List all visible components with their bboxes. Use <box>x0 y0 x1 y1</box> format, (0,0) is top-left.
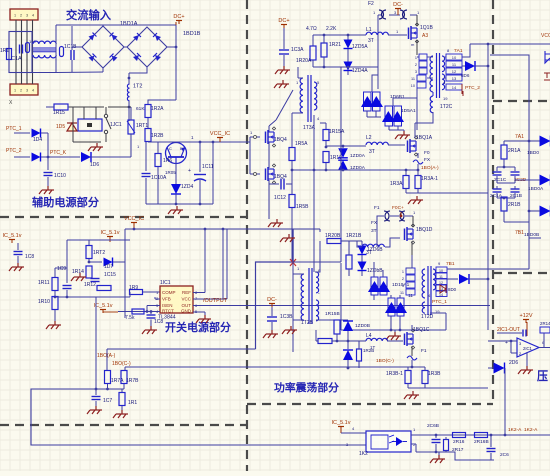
wire long left vertical <box>95 297 97 389</box>
wire DC- bus <box>292 229 294 262</box>
relay 1JC1 coil <box>78 119 102 131</box>
svg-text:1BQ4: 1BQ4 <box>274 137 287 143</box>
svg-text:C1A: C1A <box>11 56 22 62</box>
wire between bridges <box>72 46 82 48</box>
section divider horizontal y=217 <box>0 216 247 218</box>
svg-text:1K2-A: 1K2-A <box>524 427 538 433</box>
svg-text:3: 3 <box>402 284 404 288</box>
svg-text:1C11: 1C11 <box>202 164 214 170</box>
diode 1D6 <box>48 156 80 158</box>
net 1BO(C-) wire <box>125 366 425 368</box>
svg-text:1T2C: 1T2C <box>440 104 453 110</box>
big diode pair 1D10A <box>371 277 378 295</box>
optocoupler 1K2 <box>366 431 411 452</box>
ground 1C8 ic <box>150 326 152 330</box>
ground bottom <box>438 455 440 459</box>
svg-text:IC_5.1v: IC_5.1v <box>101 230 120 236</box>
ground big diodes <box>394 332 396 336</box>
ground 1C7 <box>95 406 97 410</box>
resistor 1R15A <box>323 130 329 141</box>
connector J1 bottom <box>10 84 38 95</box>
wire 1T3A pin4 down <box>313 115 315 272</box>
svg-text:2C1C: 2C1C <box>494 177 507 183</box>
svg-text:1BQ1D: 1BQ1D <box>416 227 433 233</box>
diode 1BD0A right edge <box>540 175 550 186</box>
wire L4 row left <box>337 340 366 342</box>
wire opto right rail <box>411 434 550 436</box>
svg-text:3T: 3T <box>371 228 377 234</box>
resistor 1R2B lower <box>357 349 362 361</box>
resistor 1R3A-1 <box>415 176 421 189</box>
svg-text:RTCT: RTCT <box>162 309 174 314</box>
MOSFET 1Q1C <box>404 334 406 346</box>
svg-text:1R3B-1: 1R3B-1 <box>386 371 403 377</box>
svg-text:1BO(A-): 1BO(A-) <box>97 353 116 359</box>
svg-text:E: E <box>180 146 183 151</box>
svg-text:11: 11 <box>400 291 404 295</box>
capacitor 1C8 ic <box>150 312 152 315</box>
thermistor 1RT1 <box>128 120 134 134</box>
svg-text:F1: F1 <box>374 205 380 211</box>
svg-text:1ZD5A: 1ZD5A <box>352 44 368 50</box>
net wire 1BO(A-) upper <box>292 169 418 171</box>
svg-text:2: 2 <box>20 89 22 93</box>
svg-text:VFB: VFB <box>162 297 171 302</box>
svg-text:10: 10 <box>411 84 415 88</box>
diode 1BD0 right edge <box>540 136 550 147</box>
diode 2D6 <box>494 363 505 374</box>
diode 1ZD0B lower <box>347 341 349 349</box>
wire aux vcc row <box>148 141 250 143</box>
svg-text:7B1: 7B1 <box>446 261 455 267</box>
ground 1R10 <box>54 321 56 325</box>
svg-text:1BD1B: 1BD1B <box>183 31 201 37</box>
svg-text:1R12: 1R12 <box>84 282 96 288</box>
wire 1R3A bottoms <box>406 192 488 194</box>
svg-text:10: 10 <box>439 269 443 273</box>
relay flyback diode 1D5 (yellow) <box>67 123 77 131</box>
svg-text:1BQ1A: 1BQ1A <box>416 135 433 141</box>
section divider horizontal y=101 <box>493 100 550 102</box>
svg-text:/OUTPUT: /OUTPUT <box>203 298 228 304</box>
resistor 1R7A <box>105 371 111 384</box>
svg-text:1C7: 1C7 <box>103 398 112 404</box>
svg-text:DC-: DC- <box>267 297 277 303</box>
svg-text:1R10: 1R10 <box>38 299 50 305</box>
svg-text:DC-: DC- <box>393 2 403 8</box>
svg-text:PTC_2: PTC_2 <box>465 85 480 91</box>
svg-text:1R3A-1: 1R3A-1 <box>421 176 438 182</box>
node X mark <box>290 259 296 266</box>
svg-text:3T: 3T <box>369 149 375 155</box>
capacitor 1C3B <box>267 316 277 318</box>
net OUTPUT wire <box>193 305 490 307</box>
svg-text:2R1B: 2R1B <box>508 202 521 208</box>
ground chassis lower <box>288 234 290 238</box>
svg-text:1R15: 1R15 <box>53 110 65 116</box>
svg-text:1T: 1T <box>370 345 376 350</box>
svg-text:PTC_1: PTC_1 <box>432 299 447 305</box>
resistor 1R23A <box>408 366 425 368</box>
ground aux <box>176 206 178 210</box>
svg-text:1R1: 1R1 <box>0 48 9 54</box>
svg-text:1R21: 1R21 <box>329 42 341 48</box>
wire lower bus <box>341 329 446 331</box>
wire IC pins left <box>155 298 160 300</box>
diode 1BD0B right edge <box>540 206 550 217</box>
svg-text:1R05: 1R05 <box>165 170 176 175</box>
svg-text:1BO(A-): 1BO(A-) <box>421 165 439 171</box>
wire DC+ rail right <box>56 24 176 26</box>
svg-text:4.7Ω: 4.7Ω <box>306 26 317 32</box>
resistor 1R20B <box>327 239 341 244</box>
svg-text:PTC_2: PTC_2 <box>6 148 22 154</box>
zener 1ZD6B <box>348 241 350 244</box>
svg-text:3T: 3T <box>368 38 374 44</box>
svg-text:A3: A3 <box>422 33 428 39</box>
transformer 1T2C <box>430 56 433 92</box>
IC 1IC1 TL3844 <box>160 286 193 313</box>
svg-text:1R9: 1R9 <box>129 285 138 291</box>
capacitor 1C1B <box>55 25 57 73</box>
wire aux bottom <box>146 203 213 205</box>
svg-text:19: 19 <box>443 96 448 101</box>
svg-text:FX: FX <box>371 220 378 226</box>
svg-text:OUT: OUT <box>182 303 192 308</box>
diagonal wire <box>276 90 293 120</box>
op-amp cut at right edge <box>545 51 550 63</box>
svg-text:1R15B: 1R15B <box>325 311 340 317</box>
svg-text:COMP: COMP <box>162 290 176 295</box>
svg-text:1D5: 1D5 <box>56 124 65 130</box>
resistor 1R19B <box>318 339 332 344</box>
svg-text:1RT2: 1RT2 <box>93 250 105 256</box>
resistor 2R16B <box>475 433 488 438</box>
svg-text:1D10A1: 1D10A1 <box>392 282 410 288</box>
resistor 2R16 <box>453 433 466 438</box>
wire 1R23 bottoms <box>408 387 425 389</box>
bridge rectifier 1BD1A <box>82 26 124 68</box>
zener 1ZD4A <box>344 62 353 71</box>
zener 1ZD4 <box>175 163 177 184</box>
ground 1R3A <box>416 196 418 200</box>
svg-text:1ZD4: 1ZD4 <box>181 184 193 190</box>
resistor 1R15B <box>316 319 348 321</box>
resistor 1R14 <box>86 266 92 278</box>
capacitor 1C8 <box>17 243 19 250</box>
diode 1D7 <box>89 261 102 263</box>
bridge rectifier 1BD1B <box>127 27 167 67</box>
section divider horizontal y=273 <box>493 272 550 274</box>
svg-text:VCC: VCC <box>541 33 550 39</box>
wire 1T2D top tap <box>447 268 529 270</box>
svg-text:61K: 61K <box>136 106 145 112</box>
capacitor 2C1A 2C1B <box>496 176 498 183</box>
MOSFET 1BQ4 lower <box>265 169 267 181</box>
net 1BO(A-) wire <box>107 348 256 350</box>
transformer 1T3B <box>301 274 304 320</box>
common-mode choke L0 <box>33 41 56 44</box>
ground relay <box>96 143 98 147</box>
wire 2R1B to bus <box>504 221 529 223</box>
svg-text:4: 4 <box>32 14 34 18</box>
svg-text:1T2D: 1T2D <box>421 314 434 320</box>
svg-text:1R20A: 1R20A <box>296 58 312 64</box>
big diode pair 1D5A1 <box>385 106 393 126</box>
resistor 1R15 <box>54 104 68 110</box>
wire 1Q1D source to 1T2D <box>411 255 413 268</box>
svg-text:1RT1: 1RT1 <box>136 123 148 129</box>
svg-text:IC_5.1v: IC_5.1v <box>332 420 351 426</box>
svg-text:11: 11 <box>439 275 443 279</box>
svg-text:PTC_1: PTC_1 <box>6 126 22 132</box>
capacitor 2C14 <box>522 330 524 337</box>
resistor 2R1A <box>501 145 507 159</box>
resistor 1R7B <box>121 371 127 384</box>
svg-text:IC_5.1v: IC_5.1v <box>3 233 22 239</box>
ground 1R1 lower <box>121 410 123 414</box>
svg-text:1BD0A: 1BD0A <box>528 186 544 192</box>
diode 1ZD0B upper <box>343 321 353 331</box>
svg-text:F2: F2 <box>368 1 374 7</box>
svg-text:1R5A: 1R5A <box>295 141 308 147</box>
ground 1R23 <box>412 391 414 395</box>
wire 1T3B primary <box>293 273 304 275</box>
MOSFET 1Q1A <box>407 141 409 153</box>
svg-text:1R11: 1R11 <box>38 280 50 286</box>
capacitor C1A <box>19 45 21 54</box>
svg-text:2.2K: 2.2K <box>326 26 337 32</box>
svg-text:DC+: DC+ <box>173 14 184 20</box>
ground opamp <box>526 352 528 366</box>
wire gate row <box>313 34 366 36</box>
svg-text:3: 3 <box>415 70 417 74</box>
diode mark 8D0 red <box>440 285 446 293</box>
wire big diodes <box>373 262 375 277</box>
ground 1C3A <box>283 66 285 70</box>
svg-text:1R1: 1R1 <box>128 400 137 406</box>
transformer 1T2C lower winding <box>430 96 433 113</box>
wire bottom-left loop <box>31 389 366 445</box>
svg-text:2C6B: 2C6B <box>427 423 439 429</box>
svg-text:F1: F1 <box>421 348 427 354</box>
svg-text:1C3B: 1C3B <box>280 314 293 320</box>
resistor 2R14 <box>540 327 550 333</box>
zener 1ZD5A <box>347 35 349 40</box>
capacitor 1C15 <box>91 278 100 280</box>
svg-text:4: 4 <box>32 89 34 93</box>
resistor 1R22 <box>346 255 352 269</box>
svg-text:14: 14 <box>452 85 457 90</box>
svg-text:1C10A: 1C10A <box>151 175 167 181</box>
wire IC pins right <box>193 292 205 294</box>
wire big diodes upper <box>366 111 368 117</box>
big diode pair 1D10B <box>388 298 395 316</box>
svg-text:2C6: 2C6 <box>500 452 509 458</box>
resistor 1R1 <box>9 32 32 73</box>
svg-text:1K2: 1K2 <box>359 451 368 457</box>
section divider vertical x=493 <box>492 0 494 405</box>
svg-text:1D7: 1D7 <box>104 264 113 270</box>
svg-text:F0C+: F0C+ <box>392 205 404 211</box>
svg-text:1: 1 <box>14 14 16 18</box>
transistor 1Q1 regulator <box>166 143 187 164</box>
svg-text:2IC1: 2IC1 <box>523 346 533 351</box>
svg-text:1R15A: 1R15A <box>329 129 345 135</box>
wire vcc right rail <box>319 229 321 232</box>
wire MOSFET chain <box>268 142 270 168</box>
svg-text:1ZDbB: 1ZDbB <box>367 268 383 274</box>
wire connector pins <box>15 20 17 84</box>
svg-text:2: 2 <box>20 14 22 18</box>
svg-text:8D6: 8D6 <box>461 73 470 78</box>
relay contact <box>104 114 107 117</box>
svg-text:3T: 3T <box>366 250 372 256</box>
capacitor 1C10A <box>145 142 147 171</box>
MOSFET 1Q1D <box>404 229 406 241</box>
svg-text:2: 2 <box>402 277 404 281</box>
svg-text:辅助电源部分: 辅助电源部分 <box>32 195 99 209</box>
svg-text:1D6B1: 1D6B1 <box>390 94 405 100</box>
zener 1ZD4B <box>358 262 367 271</box>
wire F2 left down <box>378 14 381 16</box>
svg-text:2D6: 2D6 <box>509 360 518 366</box>
svg-text:11: 11 <box>408 293 413 299</box>
wire 1T3B secondary top <box>315 241 320 272</box>
svg-text:1D5A1: 1D5A1 <box>401 108 416 114</box>
wire relay <box>69 106 104 108</box>
svg-text:2R17: 2R17 <box>452 447 464 453</box>
inductor L3 <box>362 244 384 247</box>
capacitor 1C2 <box>71 26 73 50</box>
resistor 1R21 <box>321 43 327 57</box>
ground 1C10 <box>47 186 49 190</box>
svg-text:1JC1: 1JC1 <box>110 122 122 128</box>
resistor 1R10 <box>52 297 58 310</box>
section divider horizontal y=404 <box>247 403 493 405</box>
svg-text:1T2: 1T2 <box>133 84 142 90</box>
svg-text:1D6: 1D6 <box>90 162 99 168</box>
svg-text:1Q1B: 1Q1B <box>420 25 433 31</box>
resistor 1R2A <box>148 100 176 104</box>
svg-text:DC+: DC+ <box>278 18 289 24</box>
wire 5v rail <box>67 239 130 241</box>
svg-text:1BO(C-): 1BO(C-) <box>376 358 394 364</box>
wire filter rails <box>9 72 56 74</box>
wire 1T3A primary <box>297 67 299 78</box>
svg-text:1R3A: 1R3A <box>390 181 403 187</box>
big diode pair 1D6B1 <box>377 67 379 75</box>
svg-text:1: 1 <box>14 89 16 93</box>
svg-text:10: 10 <box>452 55 457 60</box>
resistor 1R11 <box>52 278 58 291</box>
svg-text:1IC1: 1IC1 <box>160 280 171 286</box>
svg-text:交流输入: 交流输入 <box>66 8 111 22</box>
resistor 1R6 <box>155 154 161 167</box>
varistor RV1 <box>26 43 30 53</box>
svg-text:VCC_IC: VCC_IC <box>210 131 230 137</box>
svg-text:VCC_IC: VCC_IC <box>124 216 144 222</box>
resistor 2R17 <box>444 440 449 451</box>
svg-text:3: 3 <box>26 89 28 93</box>
svg-text:2R16B: 2R16B <box>474 439 489 445</box>
svg-text:1R20B: 1R20B <box>325 233 341 239</box>
svg-text:2R14: 2R14 <box>540 321 550 326</box>
tap boxes 1T2C left lower <box>417 75 426 81</box>
connector J1 top <box>10 9 38 20</box>
MOSFET 1Q1B <box>408 28 410 40</box>
svg-text:7.5k: 7.5k <box>125 315 135 321</box>
section divider vertical x=247 <box>246 0 248 471</box>
svg-text:1BO(C-): 1BO(C-) <box>112 361 131 367</box>
zener pair 1ZD0A <box>338 148 348 158</box>
svg-text:1R14: 1R14 <box>72 269 84 275</box>
capacitor 2C6 <box>490 435 492 447</box>
svg-text:1C9: 1C9 <box>57 266 66 272</box>
resistor 1R5A <box>289 148 295 161</box>
svg-text:12: 12 <box>452 69 457 74</box>
ground 1C3B <box>271 330 273 334</box>
svg-text:F0: F0 <box>424 150 430 156</box>
svg-text:1D4: 1D4 <box>33 137 42 143</box>
ground 1C8 <box>17 263 19 267</box>
resistor 1R19 <box>323 152 329 163</box>
resistor 1R5B <box>289 195 295 208</box>
ground 1T3B primary <box>290 326 292 330</box>
wire fb bottom node <box>96 388 124 390</box>
svg-text:1K2-A: 1K2-A <box>508 427 522 433</box>
svg-text:1R7B: 1R7B <box>126 378 139 384</box>
capacitor 1C9 <box>63 285 72 287</box>
svg-text:1: 1 <box>402 270 404 274</box>
op-amp 2IC1 <box>517 338 539 357</box>
resistor 1RT2 <box>86 246 92 259</box>
ground MOSFET pair <box>276 219 278 223</box>
svg-text:ISEN: ISEN <box>162 303 173 308</box>
svg-text:1: 1 <box>415 56 417 60</box>
svg-text:L2: L2 <box>366 135 372 141</box>
svg-text:FX: FX <box>424 157 431 163</box>
svg-text:13: 13 <box>452 76 457 81</box>
svg-text:1BD1A: 1BD1A <box>120 21 138 27</box>
svg-text:功率震荡部分: 功率震荡部分 <box>274 381 340 394</box>
wire opamp inputs <box>488 340 517 342</box>
wire opamp output <box>539 347 550 349</box>
ground big diodes upper <box>403 131 405 135</box>
resistor 1R8 7.5k <box>132 309 144 314</box>
ground chassis 2 <box>282 80 284 84</box>
resistor 1R9 <box>130 290 143 295</box>
wire right bus down <box>529 237 541 239</box>
wire right column feed <box>470 43 550 45</box>
svg-text:1ZD0A: 1ZD0A <box>350 153 366 159</box>
svg-text:7A1: 7A1 <box>454 48 463 54</box>
svg-text:1R5B: 1R5B <box>296 204 309 210</box>
tap boxes 1T2C left upper <box>419 54 427 60</box>
power marks right edge <box>544 73 550 80</box>
svg-text:+12V: +12V <box>520 313 533 319</box>
svg-text:REF: REF <box>182 290 191 295</box>
tap boxes 1T2D left <box>406 268 415 274</box>
wire right col top <box>504 140 540 142</box>
svg-text:1C15: 1C15 <box>104 272 116 278</box>
svg-text:1C8: 1C8 <box>25 254 34 260</box>
svg-text:8D0: 8D0 <box>448 287 457 292</box>
svg-text:2R1A: 2R1A <box>508 148 521 154</box>
MOSFET 1BQ4 upper <box>265 132 267 144</box>
resistor 1R1 lower <box>119 393 125 406</box>
resistor 2R1B <box>501 197 507 211</box>
